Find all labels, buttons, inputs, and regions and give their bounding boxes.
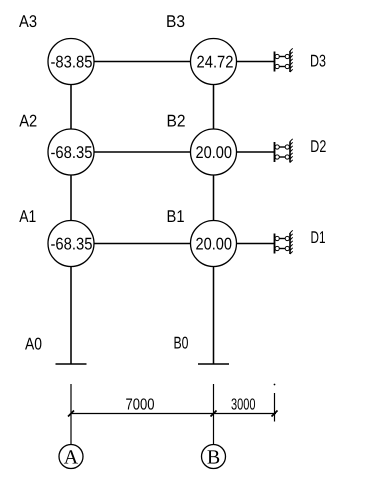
svg-text:-83.85: -83.85 [51,53,93,72]
svg-text:24.72: 24.72 [197,53,234,72]
svg-text:A: A [64,447,79,469]
svg-text:B2: B2 [167,112,186,131]
svg-text:D2: D2 [310,137,326,156]
svg-text:-68.35: -68.35 [51,143,93,162]
svg-text:20.00: 20.00 [196,143,233,162]
svg-text:B: B [207,447,220,469]
svg-text:7000: 7000 [126,397,155,414]
svg-text:D1: D1 [311,228,326,247]
svg-text:B0: B0 [174,334,189,353]
svg-text:A0: A0 [25,335,42,354]
svg-text:B1: B1 [167,207,185,226]
svg-text:B3: B3 [166,12,185,31]
svg-text:3000: 3000 [231,397,256,414]
svg-text:A3: A3 [19,12,37,31]
svg-text:20.00: 20.00 [196,235,233,254]
svg-text:A2: A2 [19,112,37,131]
svg-text:D3: D3 [310,52,326,71]
svg-text:-68.35: -68.35 [51,235,93,254]
svg-text:A1: A1 [19,207,36,226]
